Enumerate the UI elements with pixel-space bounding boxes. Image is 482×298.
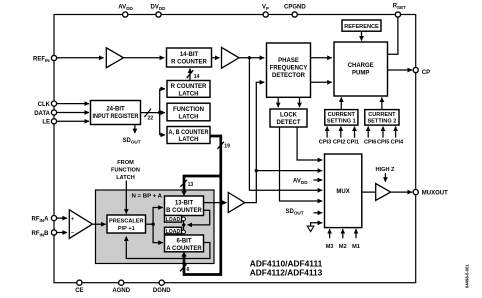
wire prescaler output: [146, 223, 154, 225]
buffer U1 (REFin input buffer): [106, 48, 123, 68]
wire current setting 2 to charge pump: [381, 97, 383, 109]
wire bus to function latch: [160, 112, 165, 114]
wire CPI4 arrow: [395, 127, 397, 138]
wire lock detect right output to MUX input 1: [297, 127, 322, 160]
gray counters block: [96, 190, 215, 264]
svg-text:SDOUT: SDOUT: [286, 209, 304, 215]
wire PFD down to lock detect right: [299, 97, 301, 107]
load 1 bubble: [182, 217, 186, 221]
wire REFin to buffer: [56, 57, 104, 59]
block lock detect: [270, 109, 307, 127]
svg-text:CPI5: CPI5: [377, 139, 389, 145]
svg-text:CE: CE: [75, 288, 83, 294]
wire SDout stub to MUX input 6: [314, 212, 323, 214]
bus slash 14: [187, 70, 194, 78]
svg-text:REFERENCE: REFERENCE: [344, 24, 379, 30]
wire PFD out 2 to charge pump: [311, 81, 332, 83]
pin RFinB: [51, 230, 56, 235]
svg-text:PUMP: PUMP: [352, 70, 369, 76]
block 14-bit R counter: [167, 48, 212, 67]
svg-text:VP: VP: [262, 4, 269, 10]
svg-text:FUNCTION: FUNCTION: [111, 168, 140, 174]
svg-text:FUNCTION: FUNCTION: [173, 107, 204, 113]
wire LE to input register: [56, 120, 89, 122]
dgnd open triangle: [307, 226, 314, 232]
svg-text:RFINB: RFINB: [32, 231, 50, 237]
svg-text:ADF4110/ADF4111: ADF4110/ADF4111: [250, 260, 323, 269]
svg-text:R COUNTER: R COUNTER: [171, 60, 207, 66]
pin AVdd: [123, 12, 128, 17]
svg-text:AVDD: AVDD: [293, 179, 308, 185]
block prescaler: [107, 215, 146, 233]
block charge pump: [334, 42, 388, 96]
svg-text:RFINA: RFINA: [32, 217, 50, 223]
svg-text:22: 22: [148, 116, 154, 122]
wire B counter output to N buffer: [204, 202, 227, 204]
svg-text:CPI3: CPI3: [319, 139, 331, 145]
wire bus to A,B counter latch: [160, 134, 165, 136]
svg-text:DETECTOR: DETECTOR: [272, 73, 306, 79]
wire tristate to MUXOUT pin: [391, 191, 412, 193]
pin CE: [77, 280, 82, 285]
pin AGND: [119, 280, 124, 285]
node N divider tap: [255, 169, 258, 172]
svg-text:A, B COUNTER: A, B COUNTER: [169, 130, 210, 136]
wire N bus arrow into B counter: [181, 191, 186, 196]
svg-text:LOCK: LOCK: [280, 113, 298, 119]
svg-text:19: 19: [224, 144, 230, 150]
svg-text:MUXOUT: MUXOUT: [422, 191, 448, 197]
svg-text:CPGND: CPGND: [284, 4, 306, 10]
wire CPI2 arrow: [340, 127, 342, 138]
pin DATA: [51, 110, 56, 115]
wire input register SDout: [134, 125, 136, 134]
wire buffer to R counter: [124, 57, 165, 59]
wire thick branch to B counter: [184, 176, 221, 192]
bus slash 13: [180, 180, 187, 187]
svg-text:B COUNTER: B COUNTER: [166, 208, 202, 214]
svg-text:FREQUENCY: FREQUENCY: [270, 65, 308, 71]
svg-text:13: 13: [188, 182, 194, 188]
svg-text:REFIN: REFIN: [33, 56, 50, 62]
wire rf buffer to prescaler: [93, 223, 106, 225]
svg-text:−: −: [71, 230, 74, 236]
svg-text:CURRENT: CURRENT: [328, 112, 356, 118]
block 6-bit A counter: [165, 235, 204, 252]
pin CP: [413, 67, 418, 72]
pin REFin: [51, 55, 56, 60]
svg-text:DGND: DGND: [153, 288, 171, 294]
wire N bus arrow into A counter: [181, 252, 186, 257]
wire prescaler to A counter: [153, 224, 163, 242]
block MUX: [325, 154, 362, 228]
wire Rset to charge pump: [388, 17, 398, 54]
node load junction: [182, 223, 185, 226]
buffer U2 (R counter output buffer): [222, 47, 240, 68]
wire buffer U2 to PFD input 1: [239, 57, 264, 59]
svg-text:PHASE: PHASE: [278, 58, 299, 64]
svg-text:MUX: MUX: [336, 189, 349, 195]
svg-text:CPI6: CPI6: [364, 139, 376, 145]
block load 2: [165, 227, 182, 235]
wire N tap to MUX input 2: [256, 170, 322, 172]
svg-text:HIGH Z: HIGH Z: [376, 167, 396, 173]
svg-text:LATCH: LATCH: [116, 175, 135, 181]
svg-text:INPUT REGISTER: INPUT REGISTER: [93, 114, 140, 120]
svg-text:LOAD: LOAD: [166, 217, 181, 223]
svg-text:6: 6: [187, 267, 190, 273]
svg-text:LATCH: LATCH: [179, 114, 199, 120]
wire PFD out 1 to charge pump: [311, 57, 332, 59]
svg-text:A COUNTER: A COUNTER: [166, 246, 202, 252]
svg-text:LATCH: LATCH: [179, 91, 199, 97]
svg-text:CLK: CLK: [38, 102, 51, 108]
wire latch bus vertical: [159, 89, 161, 135]
pin DVdd: [156, 12, 161, 17]
wire R tap down to MUX input 4: [249, 58, 322, 191]
block phase frequency detector: [267, 43, 311, 97]
svg-text:CHARGE: CHARGE: [348, 63, 374, 69]
svg-text:CPI4: CPI4: [391, 139, 404, 145]
wire load bubbles vertical: [183, 221, 185, 230]
wire A counter modulus to prescaler: [126, 237, 210, 259]
bus slash 6: [180, 264, 187, 271]
svg-text:CPI2: CPI2: [333, 139, 345, 145]
block current setting 2: [365, 110, 399, 126]
svg-text:14-BIT: 14-BIT: [180, 52, 199, 58]
svg-text:FROM: FROM: [117, 160, 134, 166]
bus slash 19: [218, 142, 225, 149]
block load 1: [165, 216, 182, 224]
wire input register to latch bus: [141, 112, 160, 114]
wire function latch to prescaler: [125, 181, 127, 214]
wire PFD down to lock detect left: [277, 97, 279, 107]
svg-text:P/P +1: P/P +1: [118, 226, 135, 232]
wire CPI5 arrow: [382, 127, 384, 138]
block 13-bit B counter: [165, 196, 204, 216]
load 2 bubble: [182, 230, 186, 234]
block 24-bit input register: [91, 101, 141, 125]
buffer U5 (tristate output): [376, 184, 391, 201]
pin CLK: [51, 101, 56, 106]
wire N buffer to PFD input 2: [245, 82, 264, 202]
svg-text:PRESCALER: PRESCALER: [109, 219, 144, 225]
node R divider tap: [248, 56, 251, 59]
block current setting 1: [325, 110, 358, 126]
svg-text:M3: M3: [326, 244, 334, 250]
wire CLK to input register: [56, 103, 89, 105]
bus slash 22: [145, 109, 152, 117]
wire CPI1 arrow: [354, 127, 356, 138]
pin LE: [51, 119, 56, 124]
pin Vp: [263, 12, 268, 17]
svg-text:R COUNTER: R COUNTER: [171, 84, 207, 90]
wire B counter to load junction: [188, 210, 210, 225]
svg-text:N = BP + A: N = BP + A: [132, 194, 163, 200]
wire HIGH Z arrow: [384, 173, 386, 182]
wire MUX to tristate buffer: [362, 191, 376, 193]
wire R counter latch to R counter: [189, 69, 191, 81]
block function latch: [167, 103, 210, 121]
svg-text:+: +: [71, 217, 74, 223]
pin Rset: [395, 12, 400, 17]
svg-text:M1: M1: [352, 244, 360, 250]
wire M1 arrow: [355, 229, 357, 238]
node latch bus junction: [158, 111, 161, 114]
svg-text:LE: LE: [42, 120, 50, 126]
pin DGND: [159, 280, 164, 285]
svg-text:DETECT: DETECT: [277, 120, 301, 126]
wire M3 arrow: [329, 229, 331, 238]
wire DATA to input register: [56, 112, 89, 114]
wire CPI3 arrow: [326, 127, 328, 138]
wire reference to charge pump: [361, 31, 363, 40]
svg-text:M2: M2: [339, 244, 347, 250]
svg-text:SETTING 1: SETTING 1: [327, 119, 356, 125]
svg-text:04498-0-001: 04498-0-001: [465, 264, 470, 288]
svg-text:AVDD: AVDD: [118, 4, 133, 10]
pin MUXOUT: [413, 190, 418, 195]
wire R counter to buffer U2: [212, 57, 220, 59]
wire M2 arrow: [342, 229, 344, 238]
svg-text:13-BIT: 13-BIT: [175, 200, 194, 206]
svg-text:6-BIT: 6-BIT: [177, 238, 192, 244]
svg-text:LOAD: LOAD: [166, 229, 181, 235]
svg-text:CP: CP: [422, 70, 430, 76]
svg-text:CPI1: CPI1: [347, 139, 359, 145]
wire lock detect left output to MUX input 5: [280, 127, 323, 201]
chip outline border: [54, 15, 416, 283]
wire CPI6 arrow: [367, 127, 369, 138]
svg-text:ADF4112/ADF4113: ADF4112/ADF4113: [250, 268, 323, 277]
svg-text:CURRENT: CURRENT: [368, 112, 396, 118]
block A,B counter latch: [167, 127, 210, 144]
wire RFinA to rf buffer: [56, 217, 67, 219]
svg-text:LATCH: LATCH: [179, 137, 199, 143]
pin CPGND: [292, 12, 297, 17]
wire AVdd stub to MUX input 3: [314, 179, 323, 181]
wire current setting 1 to charge pump: [340, 97, 342, 109]
buffer U3 (RF input stage): [69, 210, 92, 239]
svg-text:SDOUT: SDOUT: [123, 138, 141, 145]
wire dgnd stub to MUX input 7: [311, 223, 323, 226]
buffer U4 (N counter output buffer): [228, 193, 245, 213]
wire RFinB to rf buffer: [56, 232, 67, 234]
pin RFinA: [51, 216, 56, 221]
svg-text:RSET: RSET: [393, 4, 406, 10]
svg-text:AGND: AGND: [112, 288, 130, 294]
svg-text:DATA: DATA: [34, 111, 50, 117]
wire prescaler to B counter: [153, 208, 163, 225]
svg-text:SETTING 2: SETTING 2: [367, 119, 396, 125]
wire bus to R counter latch: [160, 88, 165, 90]
svg-text:14: 14: [194, 74, 200, 80]
node prescaler output junction: [151, 223, 154, 226]
wire charge pump to CP pin: [388, 69, 413, 71]
wire A,B latch to N bus (thick): [184, 136, 221, 275]
svg-text:24-BIT: 24-BIT: [106, 107, 125, 113]
block R counter latch: [167, 81, 210, 98]
svg-text:DVDD: DVDD: [151, 4, 167, 10]
block reference: [342, 20, 381, 31]
